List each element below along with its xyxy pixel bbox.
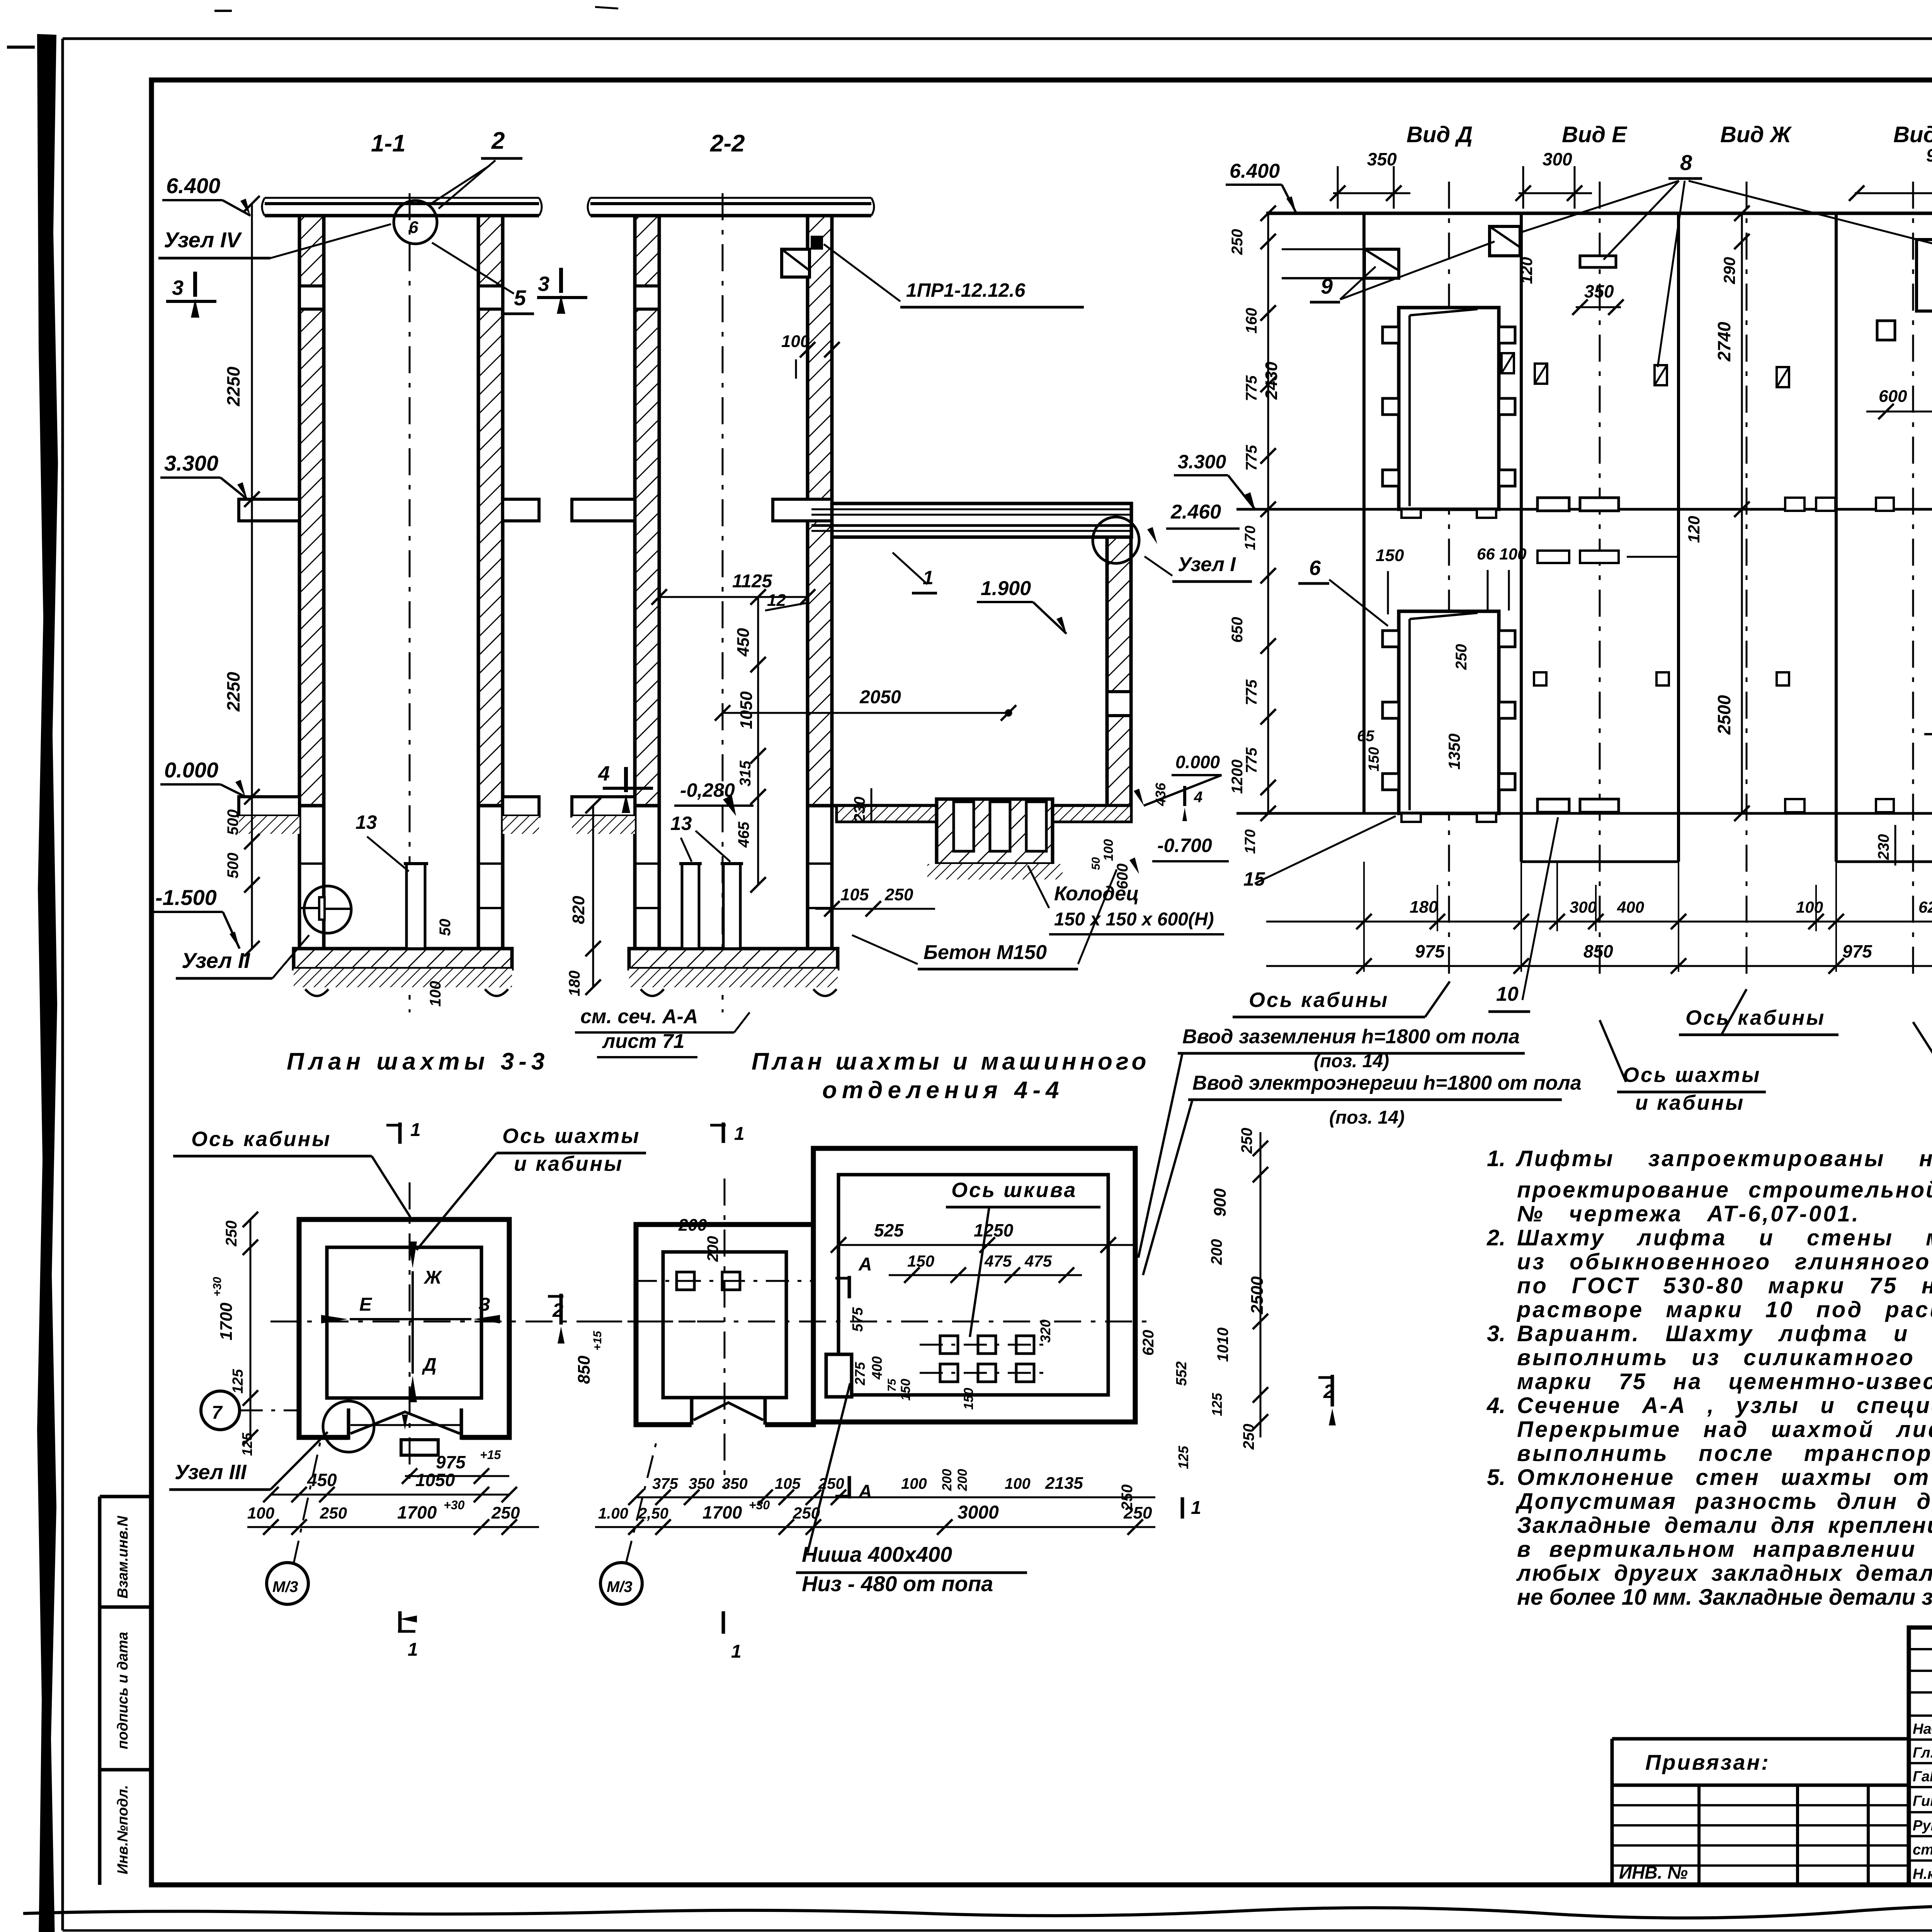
svg-text:475: 475 — [984, 1252, 1012, 1270]
svg-text:ГаП: ГаП — [1913, 1769, 1932, 1785]
svg-text:Ось шахты: Ось шахты — [502, 1124, 640, 1148]
svg-text:975: 975 — [1415, 941, 1445, 961]
svg-text:1: 1 — [734, 1124, 745, 1144]
svg-text:Привязан:: Привязан: — [1645, 1750, 1770, 1774]
svg-text:Ось шахты: Ось шахты — [1623, 1063, 1761, 1087]
svg-text:Допустимая разность длин ди: Допустимая разность длин диагоналей шахт… — [1515, 1489, 1932, 1514]
svg-text:66 100: 66 100 — [1477, 545, 1526, 563]
svg-text:230: 230 — [1875, 834, 1892, 861]
svg-text:250: 250 — [1229, 229, 1246, 255]
svg-text:465: 465 — [735, 821, 752, 848]
svg-text:13: 13 — [355, 811, 377, 833]
svg-text:50: 50 — [437, 919, 454, 936]
svg-text:М/3: М/3 — [272, 1578, 298, 1595]
svg-text:3.300: 3.300 — [1178, 451, 1226, 473]
svg-text:1.00: 1.00 — [598, 1505, 628, 1522]
svg-text:6.400: 6.400 — [1230, 160, 1280, 182]
svg-text:150: 150 — [907, 1252, 934, 1270]
svg-text:1-1: 1-1 — [371, 130, 406, 157]
svg-text:Ввод заземления h=1800 от пола: Ввод заземления h=1800 от пола — [1182, 1026, 1520, 1048]
svg-text:2740: 2740 — [1714, 321, 1734, 362]
svg-text:100: 100 — [1101, 839, 1116, 861]
svg-text:250: 250 — [1238, 1128, 1255, 1154]
svg-text:100: 100 — [901, 1475, 927, 1492]
svg-text:Узел II: Узел II — [182, 948, 250, 973]
svg-text:Е: Е — [359, 1294, 372, 1315]
svg-text:2430: 2430 — [1262, 362, 1281, 400]
svg-text:9: 9 — [1321, 274, 1333, 298]
svg-text:1050: 1050 — [737, 691, 756, 729]
svg-text:1700: 1700 — [217, 1303, 236, 1340]
svg-text:из обыкновенного глиняного: из обыкновенного глиняного кирпича полус… — [1517, 1249, 1932, 1274]
svg-text:250: 250 — [818, 1475, 844, 1492]
svg-text:Д: Д — [422, 1355, 437, 1375]
svg-text:500: 500 — [224, 810, 241, 835]
svg-text:450: 450 — [307, 1470, 337, 1490]
svg-text:105: 105 — [840, 885, 869, 904]
svg-text:План шахты 3-3: План шахты 3-3 — [287, 1048, 549, 1075]
svg-text:850: 850 — [575, 1355, 594, 1384]
svg-text:4: 4 — [1194, 789, 1202, 806]
svg-text:120: 120 — [1517, 257, 1536, 284]
svg-text:230: 230 — [851, 797, 868, 823]
svg-text:2500: 2500 — [1714, 695, 1734, 735]
svg-text:Ввод электроэнергии h=1800 от: Ввод электроэнергии h=1800 от пола — [1192, 1072, 1582, 1094]
svg-text:Н.контр.: Н.контр. — [1913, 1866, 1932, 1883]
svg-text:7: 7 — [212, 1403, 223, 1423]
svg-text:850: 850 — [1583, 941, 1613, 961]
svg-text:1: 1 — [410, 1120, 421, 1140]
svg-text:552: 552 — [1173, 1361, 1190, 1386]
svg-text:436: 436 — [1153, 782, 1168, 806]
svg-text:125: 125 — [1209, 1393, 1225, 1416]
svg-text:А: А — [858, 1254, 872, 1275]
svg-text:4.: 4. — [1486, 1393, 1505, 1418]
svg-text:З: З — [478, 1294, 490, 1315]
svg-text:13: 13 — [670, 813, 692, 834]
svg-text:5: 5 — [514, 286, 526, 310]
svg-text:0.000: 0.000 — [164, 758, 218, 782]
svg-text:930: 930 — [1926, 145, 1932, 165]
svg-text:350: 350 — [689, 1475, 714, 1492]
svg-text:775: 775 — [1243, 375, 1260, 401]
svg-text:+30: +30 — [749, 1498, 770, 1512]
svg-text:100: 100 — [781, 332, 810, 351]
svg-text:100: 100 — [247, 1504, 274, 1522]
svg-text:100: 100 — [1796, 898, 1823, 916]
svg-text:350: 350 — [722, 1475, 748, 1492]
svg-text:2050: 2050 — [859, 687, 901, 707]
svg-text:1700: 1700 — [397, 1502, 437, 1522]
svg-text:1050: 1050 — [415, 1470, 455, 1490]
svg-text:Ось кабины: Ось кабины — [191, 1128, 331, 1151]
svg-text:+15: +15 — [591, 1330, 604, 1350]
svg-text:0.000: 0.000 — [1175, 752, 1220, 772]
svg-text:2,50: 2,50 — [638, 1505, 668, 1522]
svg-text:6: 6 — [1309, 556, 1321, 580]
svg-text:125: 125 — [239, 1432, 255, 1456]
svg-text:250: 250 — [491, 1503, 520, 1522]
svg-text:-1.500: -1.500 — [155, 885, 217, 910]
svg-text:не более 10 мм. Закладные дета: не более 10 мм. Закладные детали замонол… — [1517, 1585, 1932, 1610]
svg-text:Узел III: Узел III — [175, 1461, 247, 1484]
svg-text:300: 300 — [1543, 149, 1572, 169]
svg-text:650: 650 — [1229, 617, 1246, 643]
svg-text:проектирование строительной: проектирование строительной части лифтов… — [1517, 1177, 1932, 1202]
svg-text:Вид Д: Вид Д — [1406, 122, 1473, 147]
svg-text:(поз. 14): (поз. 14) — [1329, 1107, 1405, 1128]
svg-text:250: 250 — [320, 1504, 347, 1522]
svg-text:1010: 1010 — [1214, 1328, 1231, 1362]
svg-text:125: 125 — [230, 1369, 246, 1393]
svg-text:1250: 1250 — [974, 1220, 1014, 1240]
svg-text:-0.700: -0.700 — [1157, 835, 1212, 856]
svg-text:1.900: 1.900 — [981, 577, 1031, 600]
svg-text:150: 150 — [961, 1388, 976, 1410]
svg-text:500: 500 — [224, 853, 241, 879]
svg-text:200: 200 — [1208, 1239, 1225, 1265]
svg-text:6.400: 6.400 — [166, 173, 220, 198]
svg-text:1125: 1125 — [732, 571, 773, 592]
svg-text:200: 200 — [678, 1216, 707, 1235]
svg-text:315: 315 — [737, 760, 754, 786]
svg-text:А: А — [858, 1481, 872, 1502]
svg-text:Низ - 480 от попа: Низ - 480 от попа — [802, 1571, 993, 1596]
svg-text:170: 170 — [1242, 526, 1259, 550]
svg-text:1350: 1350 — [1445, 733, 1463, 769]
svg-text:отделения 4-4: отделения 4-4 — [822, 1077, 1064, 1104]
svg-text:575: 575 — [850, 1307, 866, 1332]
svg-text:3.300: 3.300 — [164, 451, 218, 475]
svg-text:6: 6 — [409, 218, 418, 237]
svg-text:100: 100 — [427, 981, 444, 1007]
svg-text:+30: +30 — [444, 1498, 464, 1512]
svg-text:ИНВ. №: ИНВ. № — [1619, 1862, 1688, 1883]
svg-text:105: 105 — [775, 1475, 801, 1492]
svg-text:400: 400 — [1617, 898, 1644, 916]
svg-text:любых других закладных: любых других закладных деталей допустимо… — [1516, 1561, 1932, 1586]
svg-text:Узел I: Узел I — [1178, 553, 1236, 576]
svg-text:350: 350 — [1367, 149, 1397, 169]
svg-text:600: 600 — [1879, 387, 1907, 406]
svg-text:2-2: 2-2 — [710, 130, 745, 157]
svg-text:2250: 2250 — [223, 672, 243, 712]
svg-text:Нач.АКНS: Нач.АКНS — [1913, 1721, 1932, 1737]
svg-text:1700: 1700 — [702, 1502, 742, 1522]
svg-text:Ж: Ж — [423, 1267, 442, 1288]
svg-text:растворе марки 10 под ра: растворе марки 10 под расшивку швов. — [1516, 1297, 1932, 1322]
svg-text:475: 475 — [1024, 1252, 1052, 1270]
svg-text:Инв.№подл.: Инв.№подл. — [115, 1785, 131, 1874]
svg-text:820: 820 — [569, 896, 588, 924]
svg-text:375: 375 — [652, 1475, 678, 1492]
svg-text:250: 250 — [884, 885, 913, 904]
svg-text:и кабины: и кабины — [514, 1152, 623, 1175]
svg-text:(поз. 14): (поз. 14) — [1314, 1051, 1389, 1071]
svg-text:275: 275 — [852, 1362, 868, 1386]
svg-text:+30: +30 — [211, 1277, 224, 1296]
svg-text:65: 65 — [1357, 728, 1374, 745]
svg-text:выполнить из силикатного п: выполнить из силикатного полнотелого кир… — [1517, 1345, 1932, 1370]
svg-text:775: 775 — [1243, 445, 1260, 471]
svg-text:100: 100 — [1005, 1475, 1031, 1492]
svg-text:ст. инж.: ст. инж. — [1913, 1842, 1932, 1858]
svg-text:ГиП: ГиП — [1913, 1793, 1932, 1810]
svg-text:150: 150 — [1376, 546, 1404, 565]
svg-text:200: 200 — [940, 1469, 954, 1492]
svg-text:2135: 2135 — [1045, 1474, 1083, 1493]
svg-text:+15: +15 — [480, 1448, 501, 1462]
svg-text:Бетон М150: Бетон М150 — [923, 941, 1047, 964]
svg-text:3: 3 — [538, 272, 549, 296]
svg-text:350: 350 — [1584, 281, 1614, 301]
svg-text:Вид Ж: Вид Ж — [1720, 122, 1792, 147]
svg-text:3: 3 — [172, 276, 184, 299]
svg-text:900: 900 — [1211, 1188, 1230, 1217]
svg-text:см. сеч. А-А: см. сеч. А-А — [580, 1005, 698, 1028]
svg-text:в вертикальном направлении н: в вертикальном направлении не более чем … — [1517, 1537, 1932, 1562]
svg-text:Взам.инв.N: Взам.инв.N — [115, 1515, 131, 1599]
svg-text:1200: 1200 — [1229, 760, 1246, 794]
svg-text:Узел IV: Узел IV — [164, 228, 242, 252]
svg-text:450: 450 — [734, 628, 753, 657]
svg-text:620: 620 — [1140, 1330, 1157, 1356]
svg-text:1.: 1. — [1487, 1146, 1505, 1171]
svg-text:1: 1 — [408, 1639, 418, 1660]
svg-text:125: 125 — [1175, 1446, 1191, 1469]
svg-text:975: 975 — [1842, 941, 1872, 961]
svg-text:200: 200 — [955, 1469, 970, 1492]
svg-text:Рук.гр.: Рук.гр. — [1913, 1818, 1932, 1834]
svg-text:150: 150 — [898, 1379, 913, 1401]
svg-text:200: 200 — [704, 1236, 721, 1262]
svg-text:Ниша 400х400: Ниша 400х400 — [802, 1542, 952, 1566]
svg-text:180: 180 — [566, 971, 583, 997]
svg-text:и кабины: и кабины — [1635, 1091, 1745, 1114]
svg-text:План шахты и машинного: План шахты и машинного — [752, 1048, 1150, 1075]
svg-text:250: 250 — [1453, 644, 1470, 670]
svg-text:10: 10 — [1496, 983, 1519, 1005]
svg-text:Гл.констр.: Гл.констр. — [1913, 1745, 1932, 1761]
svg-text:625: 625 — [1918, 898, 1932, 916]
svg-text:5.: 5. — [1487, 1465, 1505, 1490]
svg-text:250: 250 — [223, 1221, 240, 1247]
svg-text:1: 1 — [923, 567, 934, 588]
svg-text:Вариант. Шахту лифта и стен: Вариант. Шахту лифта и стены машинного п… — [1517, 1321, 1932, 1346]
svg-text:120: 120 — [1685, 516, 1703, 543]
svg-text:3000: 3000 — [957, 1502, 999, 1523]
svg-text:выполнить после транспорт: выполнить после транспортировки оборудов… — [1517, 1441, 1932, 1466]
svg-text:2.: 2. — [1486, 1225, 1505, 1250]
svg-text:320: 320 — [1037, 1320, 1053, 1343]
svg-text:Ось кабины: Ось кабины — [1249, 988, 1389, 1012]
svg-text:Вид Е: Вид Е — [1562, 122, 1628, 147]
svg-text:марки 75 на цементно-извест: марки 75 на цементно-известковом раствор… — [1517, 1369, 1932, 1394]
svg-text:М/3: М/3 — [607, 1578, 633, 1595]
svg-text:180: 180 — [1410, 898, 1438, 917]
svg-text:75: 75 — [886, 1378, 898, 1392]
svg-text:775: 775 — [1243, 679, 1260, 705]
svg-text:2500: 2500 — [1248, 1276, 1267, 1315]
svg-text:250: 250 — [1240, 1424, 1257, 1450]
svg-text:2.460: 2.460 — [1170, 501, 1221, 523]
svg-text:1: 1 — [1191, 1498, 1201, 1518]
svg-text:1: 1 — [731, 1641, 742, 1662]
svg-text:Лифты запроектированы на о: Лифты запроектированы на основании альбо… — [1515, 1146, 1932, 1171]
svg-text:Сечение А-А , узлы и спец: Сечение А-А , узлы и спецификацию см. на… — [1517, 1393, 1932, 1418]
svg-text:Шахту лифта и стены маши: Шахту лифта и стены машинного помещения … — [1517, 1225, 1932, 1250]
svg-text:1ПР1-12.12.6: 1ПР1-12.12.6 — [906, 279, 1026, 301]
svg-text:2: 2 — [491, 128, 505, 154]
svg-text:Колодец: Колодец — [1054, 883, 1139, 905]
svg-text:525: 525 — [874, 1220, 904, 1240]
svg-text:250: 250 — [1119, 1485, 1136, 1511]
svg-text:975: 975 — [436, 1452, 466, 1472]
svg-text:8: 8 — [1680, 150, 1692, 175]
svg-text:Ось кабины: Ось кабины — [1685, 1006, 1825, 1029]
svg-text:4: 4 — [598, 762, 610, 785]
svg-text:2250: 2250 — [223, 366, 243, 406]
svg-text:Отклонение стен шахты от: Отклонение стен шахты от вертикальной пл… — [1517, 1465, 1932, 1490]
svg-text:150 х 150 х 600(Н): 150 х 150 х 600(Н) — [1054, 909, 1214, 930]
svg-text:290: 290 — [1720, 257, 1738, 284]
svg-text:300: 300 — [1570, 898, 1597, 916]
svg-text:по ГОСТ 530-80 марки 75 н: по ГОСТ 530-80 марки 75 на цементно-изве… — [1517, 1273, 1932, 1298]
svg-text:Перекрытие над шахтой ли: Перекрытие над шахтой лифта и над машинн… — [1517, 1417, 1932, 1442]
svg-text:400: 400 — [869, 1356, 885, 1380]
svg-text:160: 160 — [1243, 308, 1260, 334]
svg-text:подпись и дата: подпись и дата — [115, 1632, 131, 1749]
svg-text:Закладные детали для крепле: Закладные детали для крепления кронштейн… — [1517, 1513, 1932, 1538]
svg-text:Вид З: Вид З — [1893, 122, 1932, 147]
svg-text:№ чертежа АТ-6,07-001.: № чертежа АТ-6,07-001. — [1517, 1201, 1860, 1226]
svg-text:50: 50 — [1090, 857, 1102, 870]
svg-text:150: 150 — [1366, 747, 1382, 771]
svg-text:3.: 3. — [1487, 1321, 1505, 1346]
svg-text:Ось шкива: Ось шкива — [951, 1179, 1077, 1202]
svg-text:170: 170 — [1242, 829, 1259, 854]
